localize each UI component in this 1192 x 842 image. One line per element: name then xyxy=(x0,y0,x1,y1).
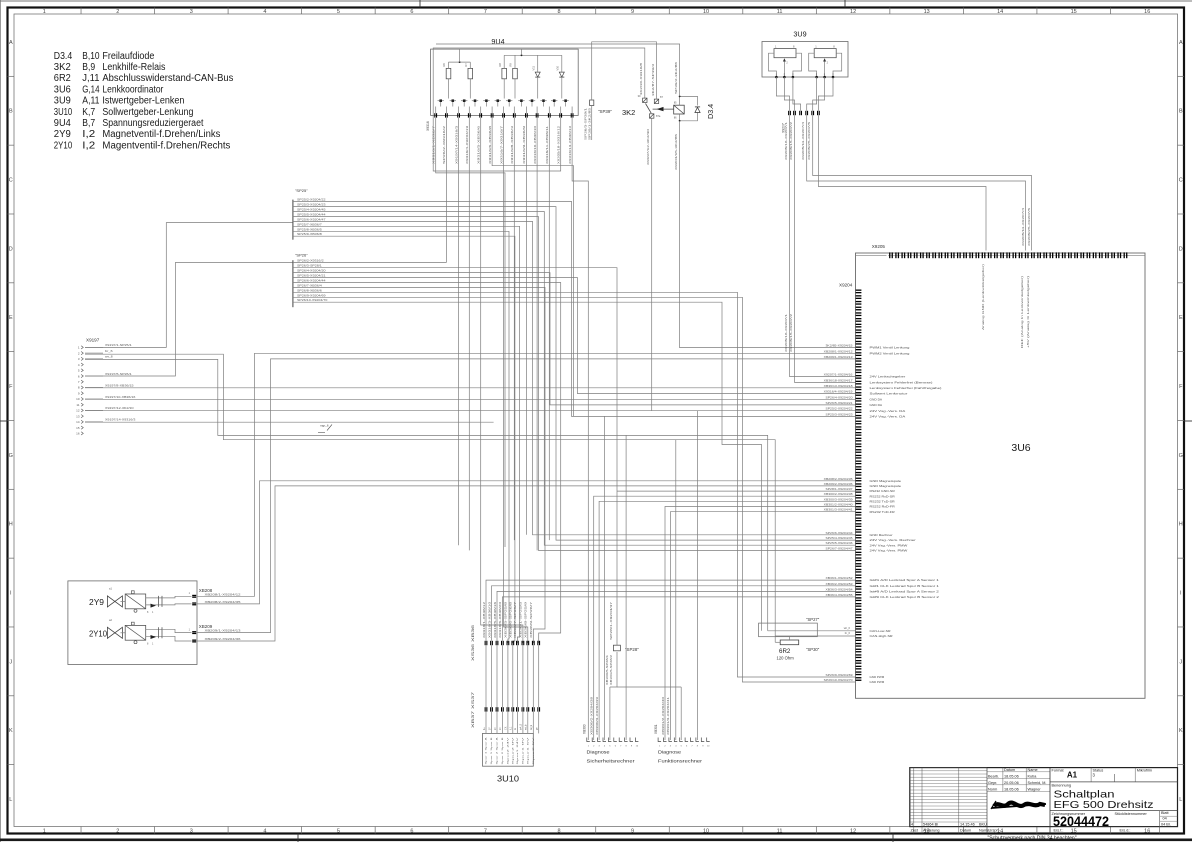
svg-text:Analog GND (Lenkwinkelgeber): Analog GND (Lenkwinkelgeber) xyxy=(981,264,985,330)
svg-text:X9316/5-XB36/6: X9316/5-XB36/6 xyxy=(477,125,481,164)
svg-text:15: 15 xyxy=(1071,829,1077,835)
svg-text:SP26/2-X9316/2: SP26/2-X9316/2 xyxy=(297,259,324,263)
svg-text:X9316/6-XB36/8: X9316/6-XB36/8 xyxy=(488,125,492,164)
svg-text:XB36/18-X9204/17: XB36/18-X9204/17 xyxy=(824,378,854,382)
svg-text:R9: R9 xyxy=(509,63,513,67)
svg-text:120 Ohm: 120 Ohm xyxy=(777,656,795,661)
wire SP26/9 xyxy=(293,297,855,682)
svg-text:Magnetventil-f.Drehen/Links: Magnetventil-f.Drehen/Links xyxy=(102,129,220,140)
valve 2Y10 connector bracket xyxy=(146,628,162,630)
svg-text:wt_b: wt_b xyxy=(530,724,533,730)
svg-text:mt_b: mt_b xyxy=(525,724,528,730)
relay 3K2 coil xyxy=(674,105,685,114)
svg-text:XB208/1-X9204/12: XB208/1-X9204/12 xyxy=(205,592,242,596)
svg-text:X9204/15-3K2/85: X9204/15-3K2/85 xyxy=(674,133,678,170)
column scale ticks bottom xyxy=(80,827,82,834)
svg-text:Stücklistennummer: Stücklistennummer xyxy=(1115,812,1148,816)
svg-text:L: L xyxy=(1179,797,1182,803)
svg-text:L: L xyxy=(9,797,12,803)
svg-text:11: 11 xyxy=(777,829,783,835)
svg-text:Spur 2 Spur A: Spur 2 Spur A xyxy=(496,736,499,764)
svg-text:XB301/2-X9204/40: XB301/2-X9204/40 xyxy=(824,503,854,507)
svg-text:3U9: 3U9 xyxy=(793,30,806,39)
splice SP27 rail xyxy=(767,623,769,631)
svg-text:4: 4 xyxy=(263,9,266,15)
svg-text:3: 3 xyxy=(190,9,193,15)
svg-text:24V Vsg.-Vers. PMW: 24V Vsg.-Vers. PMW xyxy=(870,543,908,547)
wire 3K2/87 to SP39 xyxy=(592,42,657,100)
svg-text:SP26/10-X9204/70: SP26/10-X9204/70 xyxy=(297,298,328,302)
wire XB301/2 to X9204/40 xyxy=(665,507,855,741)
svg-text:RS232 TxD-FR: RS232 TxD-FR xyxy=(870,510,896,514)
svg-text:X9316: X9316 xyxy=(426,121,430,131)
svg-text:SP25/6-X9204/47: SP25/6-X9204/47 xyxy=(297,217,326,221)
valve unit enclosure xyxy=(68,581,197,665)
svg-text:8: 8 xyxy=(557,9,560,15)
svg-text:XB208/2-X9204/35: XB208/2-X9204/35 xyxy=(824,477,854,481)
svg-text:J: J xyxy=(1179,659,1182,665)
svg-text:REF (Analog In Lenkwinkelgeber: REF (Analog In Lenkwinkelgeber) xyxy=(1020,276,1024,348)
svg-text:XB209/1-X9204/13: XB209/1-X9204/13 xyxy=(824,355,854,359)
wire ws_8 X9197/3 CAN xyxy=(85,359,768,623)
svg-text:X9316/4-X9204/19: X9316/4-X9204/19 xyxy=(824,390,854,394)
svg-text:Mikrofilm: Mikrofilm xyxy=(1137,768,1152,772)
svg-text:Spannungsreduziergeraet: Spannungsreduziergeraet xyxy=(102,118,203,129)
svg-text:Spur 1 Spur A: Spur 1 Spur A xyxy=(485,736,488,764)
solenoid valve 2Y9 symbol xyxy=(107,596,122,607)
svg-text:B,7: B,7 xyxy=(82,118,95,129)
svg-text:12: 12 xyxy=(850,9,856,15)
svg-text:X9316/7-X9316/7: X9316/7-X9316/7 xyxy=(499,125,503,164)
title block drawing number section xyxy=(1050,810,1178,812)
wire X9197/12 to X9204/22 xyxy=(85,410,855,412)
svg-text:X9205/15-X9207/2: X9205/15-X9207/2 xyxy=(789,121,793,160)
svg-text:XB209/2-X9204/36: XB209/2-X9204/36 xyxy=(205,637,242,641)
svg-text:Gepr.: Gepr. xyxy=(988,781,997,785)
svg-text:5: 5 xyxy=(337,9,340,15)
svg-text:SP25/4-X9204/45: SP25/4-X9204/45 xyxy=(297,208,326,212)
svg-text:XB36/7-SP25/7: XB36/7-SP25/7 xyxy=(513,601,517,638)
svg-text:X9316/11-XB36/11: X9316/11-XB36/11 xyxy=(545,125,549,164)
svg-text:X9205/25-X9207/5: X9205/25-X9207/5 xyxy=(807,121,811,160)
svg-text:SP28/1-X9204/37: SP28/1-X9204/37 xyxy=(609,601,613,640)
title block name date table xyxy=(1002,768,1004,792)
svg-text:Ist#9 A/D Lenkrad Spur A Senso: Ist#9 A/D Lenkrad Spur A Sensor 2 xyxy=(870,590,940,594)
svg-text:XB36/13-X9204/18: XB36/13-X9204/18 xyxy=(824,384,854,388)
svg-text:X9197/6-SP26/1: X9197/6-SP26/1 xyxy=(105,372,132,376)
svg-text:XB301/3-X9204/41: XB301/3-X9204/41 xyxy=(824,508,854,512)
svg-text:X9197/12-3K2/30: X9197/12-3K2/30 xyxy=(105,406,134,410)
svg-text:X9197/1-SP25/1: X9197/1-SP25/1 xyxy=(105,343,132,347)
svg-text:RS232 RxD-SR: RS232 RxD-SR xyxy=(870,494,896,498)
svg-text:Spur2 24V: Spur2 24V xyxy=(506,736,509,764)
svg-text:9: 9 xyxy=(631,829,634,835)
svg-text:Name: Name xyxy=(1028,768,1038,772)
svg-text:X9205/25-X9207/5: X9205/25-X9207/5 xyxy=(1027,207,1031,246)
connector XB209 xyxy=(162,629,192,632)
svg-text:X9316/10-XB36/10: X9316/10-XB36/10 xyxy=(533,125,537,164)
svg-text:Lenkkoordinator: Lenkkoordinator xyxy=(102,84,164,95)
svg-text:SP39/2-3K2/86: SP39/2-3K2/86 xyxy=(674,61,678,94)
svg-text:CK: CK xyxy=(505,726,508,730)
svg-text:SP26/7-X9204/47: SP26/7-X9204/47 xyxy=(826,546,854,550)
CAN termination assembly box xyxy=(759,623,818,637)
svg-text:RS232 GND-SR: RS232 GND-SR xyxy=(870,489,896,493)
svg-text:XB209/2-X9204/36: XB209/2-X9204/36 xyxy=(824,482,854,486)
wire X9316/7 drop to XS36 xyxy=(504,118,528,643)
svg-text:3K2/85-X9204/15: 3K2/85-X9204/15 xyxy=(826,344,854,348)
wire X9207/4 to X9205 xyxy=(807,115,1026,250)
zener diode V11 xyxy=(535,72,540,77)
svg-text:Ist#9 CLK Lenkrad Spur B Senso: Ist#9 CLK Lenkrad Spur B Sensor 2 xyxy=(870,595,940,599)
svg-text:SP26/4-X9204/20: SP26/4-X9204/20 xyxy=(297,269,326,273)
svg-text:X9205/11-X9207/4: X9205/11-X9207/4 xyxy=(801,121,805,160)
svg-text:14: 14 xyxy=(997,9,1003,15)
svg-text:XB36/9-SP26/7: XB36/9-SP26/7 xyxy=(529,601,533,638)
svg-text:2: 2 xyxy=(116,829,119,835)
svg-text:Diagnose: Diagnose xyxy=(658,750,682,755)
svg-text:Ers.d.:: Ers.d.: xyxy=(1120,829,1131,833)
svg-text:SP26/6-X9204/44: SP26/6-X9204/44 xyxy=(826,531,854,535)
svg-text:Sollwert Lenkmotor: Sollwert Lenkmotor xyxy=(870,392,908,396)
svg-text:B,10: B,10 xyxy=(82,51,100,62)
wire X9316/2 drop xyxy=(445,118,447,263)
svg-text:XB36/8-SP25/9: XB36/8-SP25/9 xyxy=(524,601,528,638)
9U4 internal bus 2 xyxy=(504,54,562,56)
svg-text:Bearb.: Bearb. xyxy=(988,775,999,779)
wire SP26/10 into assembly xyxy=(761,623,763,631)
wires XB37 to 3U10 xyxy=(485,712,487,734)
svg-text:13: 13 xyxy=(924,9,930,15)
solenoid coil of 2Y9 xyxy=(120,600,125,602)
wire SP25/4 xyxy=(293,212,855,546)
wire XB209/1 to X9204/13 xyxy=(197,359,856,633)
wire X9207/6 to X9205 xyxy=(818,115,986,250)
3U9 wiring to X9207 xyxy=(776,77,789,111)
svg-text:Blatt: Blatt xyxy=(1161,811,1170,815)
wire SP25/5 xyxy=(293,217,855,551)
svg-text:Spur1 0V: Spur1 0V xyxy=(521,736,524,765)
svg-text:Datum: Datum xyxy=(960,829,971,833)
wire X9316/8 drop xyxy=(513,118,515,540)
relay 3K2 contact arm xyxy=(646,104,652,114)
svg-text:SP25/8-XB36/5: SP25/8-XB36/5 xyxy=(297,227,322,231)
svg-text:Istwertgeber-Lenken: Istwertgeber-Lenken xyxy=(102,96,184,107)
svg-text:XS36 XB36: XS36 XB36 xyxy=(470,624,475,661)
svg-text:Zust: Zust xyxy=(911,829,919,833)
svg-text:04: 04 xyxy=(1163,817,1167,821)
wire SP26/8 xyxy=(293,292,855,677)
svg-text:Spur2 5V: Spur2 5V xyxy=(532,736,535,765)
svg-text:12: 12 xyxy=(76,409,80,413)
wire X9207/5 to X9205 xyxy=(813,115,1032,250)
svg-text:D3.4: D3.4 xyxy=(706,104,715,119)
row scale ticks left xyxy=(8,75,15,77)
svg-text:24V Vsg.-Vers. Rechner: 24V Vsg.-Vers. Rechner xyxy=(870,538,916,542)
wires XS36 to XB37 xyxy=(485,645,487,707)
svg-text:X9197/8-XB36/15: X9197/8-XB36/15 xyxy=(105,383,134,387)
svg-text:2: 2 xyxy=(116,9,119,15)
svg-text:XB36/1-X9204/52: XB36/1-X9204/52 xyxy=(826,576,854,580)
svg-text:4: 4 xyxy=(911,823,913,827)
wire 3K2/86 top loop xyxy=(436,44,680,96)
svg-text:X9316/13-XB36/13: X9316/13-XB36/13 xyxy=(568,125,572,164)
svg-text:SP26/3-SP28/1: SP26/3-SP28/1 xyxy=(297,264,322,268)
svg-text:Änderung: Änderung xyxy=(923,829,939,833)
wire XB209/2 to X9204/36 xyxy=(197,486,856,641)
svg-text:X9197/12-3K2/30: X9197/12-3K2/30 xyxy=(646,128,650,165)
svg-text:XB300/5-SP28/1: XB300/5-SP28/1 xyxy=(605,654,609,685)
svg-text:3K2/30-X9316/8: 3K2/30-X9316/8 xyxy=(639,62,643,95)
svg-text:X9316/3-XB36/10: X9316/3-XB36/10 xyxy=(487,601,491,638)
wire X9197/14 xyxy=(85,421,494,423)
svg-text:X9316/6-XB36/20: X9316/6-XB36/20 xyxy=(498,601,502,638)
wire X9207/1 to X9204/16 xyxy=(790,115,856,376)
svg-text:54864 Bi: 54864 Bi xyxy=(923,823,938,827)
svg-text:GND DA: GND DA xyxy=(870,403,883,407)
svg-text:"SP39": "SP39" xyxy=(598,109,612,114)
svg-text:A: A xyxy=(1179,40,1183,46)
svg-text:Freilaufdiode: Freilaufdiode xyxy=(102,51,154,62)
svg-text:10: 10 xyxy=(76,397,80,401)
svg-text:X9205/16-X9207/1: X9205/16-X9207/1 xyxy=(784,313,788,352)
svg-text:XB301/5-SP28/2: XB301/5-SP28/2 xyxy=(609,654,613,685)
svg-text:XB209/1-X9204/13: XB209/1-X9204/13 xyxy=(205,629,242,633)
relay 3K2 contact 30 xyxy=(643,98,647,102)
svg-text:X9197: X9197 xyxy=(86,338,100,343)
svg-text:SP25/7-XB36/7: SP25/7-XB36/7 xyxy=(297,222,322,226)
svg-text:XB300/3-X9204/39: XB300/3-X9204/39 xyxy=(595,696,599,735)
svg-text:SP25/2-X9204/22: SP25/2-X9204/22 xyxy=(826,407,854,411)
svg-text:J: J xyxy=(9,659,12,665)
svg-text:16: 16 xyxy=(1144,829,1150,835)
wire X9316/1 drop xyxy=(436,118,505,547)
svg-text:+5V (Analog In Lenkwinkelgeber: +5V (Analog In Lenkwinkelgeber) xyxy=(1026,276,1030,348)
svg-text:GND Magnetspule: GND Magnetspule xyxy=(870,479,902,483)
svg-text:24V Vsg.-Vers. PMW: 24V Vsg.-Vers. PMW xyxy=(870,549,908,553)
resistor R7 xyxy=(468,68,473,78)
svg-text:K: K xyxy=(1179,728,1183,734)
wire SP26/4 xyxy=(293,273,855,405)
svg-text:I,2: I,2 xyxy=(82,140,95,151)
svg-text:SP25/5-X9204/44: SP25/5-X9204/44 xyxy=(297,213,326,217)
svg-text:Spur 2 Spur B: Spur 2 Spur B xyxy=(501,736,504,764)
svg-text:R8: R8 xyxy=(498,63,502,67)
svg-text:3K2: 3K2 xyxy=(622,108,635,117)
wire X9197/10 to X9204/20 xyxy=(85,398,855,400)
svg-text:2Y9: 2Y9 xyxy=(54,129,71,140)
svg-text:G,14: G,14 xyxy=(82,84,100,95)
svg-text:Benennung: Benennung xyxy=(1052,783,1071,787)
wire X9197/6 to SP26 xyxy=(85,263,293,377)
svg-text:XB300: XB300 xyxy=(583,724,587,734)
svg-text:SP39/1-3K2/85: SP39/1-3K2/85 xyxy=(587,107,591,140)
svg-text:3U10: 3U10 xyxy=(54,107,73,118)
svg-text:XB301/3-X9204/41: XB301/3-X9204/41 xyxy=(666,696,670,735)
svg-text:X9205/15-X9207/2: X9205/15-X9207/2 xyxy=(789,313,793,352)
svg-text:XB301: XB301 xyxy=(654,724,658,734)
svg-text:G: G xyxy=(1179,453,1183,459)
svg-text:16: 16 xyxy=(76,432,80,436)
wire SP25/9 to XS36 xyxy=(293,236,515,643)
svg-text:10: 10 xyxy=(703,829,709,835)
svg-text:SP25/4-X9204/45: SP25/4-X9204/45 xyxy=(826,536,854,540)
svg-text:24V Vsg.-Vers. DA: 24V Vsg.-Vers. DA xyxy=(870,415,906,419)
wire XB300/2 to X9204/38 xyxy=(594,496,855,740)
column scale ticks top xyxy=(80,8,82,15)
svg-text:X9316/1-XB36/12: X9316/1-XB36/12 xyxy=(482,601,486,638)
svg-text:Sicherheitsrechner: Sicherheitsrechner xyxy=(587,759,636,764)
wire XB301/3 to X9204/41 xyxy=(670,512,855,740)
svg-text:04 Bl.: 04 Bl. xyxy=(1161,822,1171,826)
wire XB300/3 to X9204/39 xyxy=(599,501,855,740)
wire XB208/2 to X9204/35 xyxy=(197,481,856,604)
svg-text:X9316/9-XB36/9: X9316/9-XB36/9 xyxy=(522,125,526,164)
resistor R6 xyxy=(446,68,451,78)
connector XB208 xyxy=(162,596,192,598)
svg-text:D3.4: D3.4 xyxy=(54,51,73,62)
title block revision table xyxy=(910,767,987,769)
wire bundle into XB300 xyxy=(604,416,606,740)
svg-text:E: E xyxy=(1179,315,1183,321)
svg-text:C: C xyxy=(1179,178,1183,184)
wire SP26/5 xyxy=(293,278,855,394)
svg-text:14.15.46: 14.15.46 xyxy=(960,823,975,827)
svg-text:Format: Format xyxy=(1052,768,1065,772)
svg-text:X9316/5-XB36/16: X9316/5-XB36/16 xyxy=(493,601,497,638)
splice SP28 xyxy=(613,645,620,651)
svg-text:GND DA: GND DA xyxy=(870,397,883,401)
svg-text:K,7: K,7 xyxy=(82,107,95,118)
potentiometer in 3U9 xyxy=(814,49,836,58)
svg-text:Ers.f.:: Ers.f.: xyxy=(1054,829,1064,833)
svg-text:Magentventil-f.Drehen/Rechts: Magentventil-f.Drehen/Rechts xyxy=(102,140,230,151)
wire SP26/10 xyxy=(293,302,762,623)
svg-text:BKU: BKU xyxy=(979,823,987,827)
svg-text:9U4: 9U4 xyxy=(54,118,71,129)
title block outline xyxy=(910,768,1178,827)
svg-text:R6: R6 xyxy=(442,63,446,67)
svg-text:52044472: 52044472 xyxy=(1053,813,1109,829)
svg-text:Norm: Norm xyxy=(988,787,997,791)
svg-text:Kuba: Kuba xyxy=(1028,775,1038,779)
svg-text:XB301/2-X9204/40: XB301/2-X9204/40 xyxy=(661,696,665,735)
svg-text:13: 13 xyxy=(76,414,80,418)
svg-text:GND PWM: GND PWM xyxy=(870,675,885,679)
wire SP25/2 xyxy=(293,201,855,416)
wire SP25/3 xyxy=(293,207,855,540)
svg-text:3U10: 3U10 xyxy=(497,775,520,784)
svg-text:Diagnose: Diagnose xyxy=(587,750,611,755)
svg-text:mgr_6: mgr_6 xyxy=(320,424,329,428)
svg-text:SP26/2-X9316/2: SP26/2-X9316/2 xyxy=(442,125,446,164)
9U4 small component row xyxy=(439,99,442,102)
svg-text:87a: 87a xyxy=(656,114,661,118)
svg-text:RS232 RxD-FR: RS232 RxD-FR xyxy=(870,505,896,509)
svg-text:20.05.06: 20.05.06 xyxy=(1004,781,1019,785)
wire X9197/8 to X9204/18 xyxy=(85,387,855,389)
svg-text:V10: V10 xyxy=(556,65,560,70)
svg-text:Spur1 5V: Spur1 5V xyxy=(526,736,529,765)
svg-text:Abschlusswiderstand-CAN-Bus: Abschlusswiderstand-CAN-Bus xyxy=(102,73,233,84)
svg-text:PWM2 Ventil Lenkung: PWM2 Ventil Lenkung xyxy=(870,351,910,355)
setpoint sensor 3U10 box xyxy=(483,733,534,766)
svg-text:SP28/1-X9204/37: SP28/1-X9204/37 xyxy=(826,487,854,491)
wire X9316/10 drop xyxy=(536,118,538,551)
svg-text:Ist#1 CLK Lenkrad Spur B Senso: Ist#1 CLK Lenkrad Spur B Sensor 1 xyxy=(870,584,940,588)
svg-text:X9205: X9205 xyxy=(872,244,886,249)
wire X9316/9 drop xyxy=(525,118,527,535)
svg-text:5: 5 xyxy=(337,829,340,835)
svg-text:7: 7 xyxy=(484,829,487,835)
svg-text:Wagner: Wagner xyxy=(1028,787,1042,791)
svg-text:15: 15 xyxy=(1071,9,1077,15)
svg-text:V11: V11 xyxy=(532,66,536,71)
svg-text:C: C xyxy=(9,178,13,184)
svg-text:11: 11 xyxy=(76,403,79,407)
relay 3K2 contact 87a xyxy=(650,114,654,118)
svg-text:R7: R7 xyxy=(464,63,468,67)
svg-text:J,11: J,11 xyxy=(82,73,100,84)
svg-text:Funktionsrechner: Funktionsrechner xyxy=(658,759,703,764)
svg-text:2Y10: 2Y10 xyxy=(54,140,73,151)
wire 3K2/87a down xyxy=(651,118,653,411)
svg-text:3U6: 3U6 xyxy=(54,84,71,95)
svg-text:3U9: 3U9 xyxy=(54,96,71,107)
svg-text:X9205/18-X9316/12: X9205/18-X9316/12 xyxy=(557,125,561,164)
svg-text:Spur2 0V: Spur2 0V xyxy=(511,736,514,765)
svg-text:3: 3 xyxy=(190,829,193,835)
svg-text:XB36/2-X9204/53: XB36/2-X9204/53 xyxy=(826,582,854,586)
row scale ticks right xyxy=(1178,75,1185,77)
potentiometer in 3U9 xyxy=(774,49,796,58)
svg-text:9: 9 xyxy=(631,9,634,15)
svg-text:XB300/3-X9204/39: XB300/3-X9204/39 xyxy=(824,497,854,501)
svg-text:6: 6 xyxy=(410,829,413,835)
svg-text:X9204: X9204 xyxy=(839,283,853,288)
wire SP25/6 xyxy=(293,221,855,534)
wire CAN high to X9204 xyxy=(817,635,855,637)
svg-text:G: G xyxy=(9,453,13,459)
svg-text:SP26/9-X9204/69: SP26/9-X9204/69 xyxy=(826,673,854,677)
svg-text:XB37 XS37: XB37 XS37 xyxy=(470,691,475,728)
svg-text:X9197/14-X9316/3: X9197/14-X9316/3 xyxy=(105,418,136,422)
svg-text:PWM1 Ventil Lenkung: PWM1 Ventil Lenkung xyxy=(870,346,910,350)
svg-text:SP26/5-X9204/21: SP26/5-X9204/21 xyxy=(826,401,854,405)
svg-text:"SP25": "SP25" xyxy=(295,188,308,193)
svg-text:ws_8: ws_8 xyxy=(105,355,113,359)
svg-text:X9316/8-XB36/3: X9316/8-XB36/3 xyxy=(510,125,514,164)
relay 3K2 actuation link xyxy=(653,108,674,110)
page edge lines xyxy=(0,0,2,842)
svg-text:B: B xyxy=(9,109,13,115)
svg-text:Schmid, M.: Schmid, M. xyxy=(1028,781,1047,785)
svg-text:XB300/2-X9204/38: XB300/2-X9204/38 xyxy=(590,696,594,735)
svg-text:"SP30": "SP30" xyxy=(806,647,820,652)
svg-text:18.05.06: 18.05.06 xyxy=(1004,775,1019,779)
svg-text:X9205/16-X9207/1: X9205/16-X9207/1 xyxy=(784,121,788,160)
svg-text:GND Magnetspule: GND Magnetspule xyxy=(870,484,902,488)
svg-text:9U4: 9U4 xyxy=(491,37,504,46)
svg-text:SP26/9-X9204/69: SP26/9-X9204/69 xyxy=(297,293,326,297)
steering coordinator 3U6 box xyxy=(856,253,1146,698)
svg-text:SP26/3-SP39/1: SP26/3-SP39/1 xyxy=(584,107,588,140)
svg-text:24V Lenkschegeber: 24V Lenkschegeber xyxy=(870,375,906,379)
svg-text:RS232 TxD-SR: RS232 TxD-SR xyxy=(870,499,896,503)
svg-text:18.05.06: 18.05.06 xyxy=(1004,787,1019,791)
wires XB36 to X9204 row 52-55 xyxy=(486,580,855,641)
svg-text:GND PWM: GND PWM xyxy=(870,680,885,684)
